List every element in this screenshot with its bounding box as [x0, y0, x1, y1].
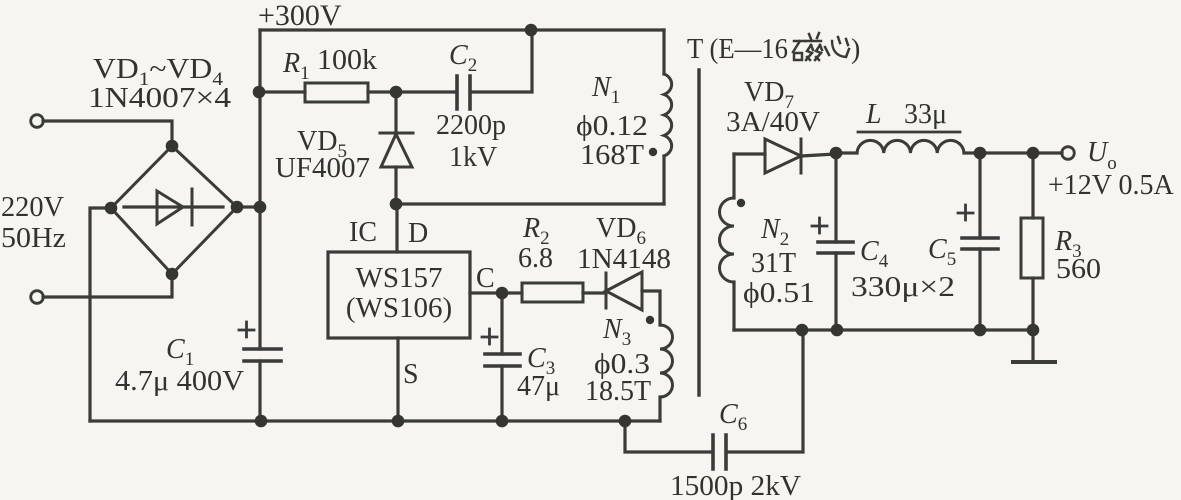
svg-text:330μ×2: 330μ×2 [851, 272, 955, 303]
wire bottom left rail [90, 419, 660, 422]
svg-text:31T: 31T [751, 248, 796, 279]
node C5 bottom [974, 324, 987, 337]
svg-text:IC: IC [349, 217, 377, 248]
svg-text:R1: R1 [282, 48, 310, 84]
capacitor C6 [625, 330, 803, 500]
svg-text:50Hz: 50Hz [1, 223, 66, 254]
wire bottom right rail [734, 328, 1033, 331]
node T label [687, 33, 860, 65]
transformer winding N2 [720, 154, 816, 330]
resistor R1 [260, 45, 396, 102]
node C2 top [525, 24, 538, 37]
wire left rail lower [258, 361, 261, 421]
svg-text:T (E—16: T (E—16 [687, 34, 788, 65]
svg-text:+300V: +300V [258, 0, 342, 32]
svg-text:D: D [408, 218, 428, 249]
resistor R2 [518, 213, 606, 302]
capacitor C1 [115, 322, 281, 397]
inductor L [836, 99, 1062, 153]
node C3 bottom [496, 415, 509, 428]
svg-text:3A/40V: 3A/40V [726, 107, 820, 138]
svg-text:2200p: 2200p [436, 110, 506, 141]
wire left rail upper [258, 30, 261, 349]
node C6 right riser [796, 324, 809, 337]
svg-text:S: S [403, 359, 419, 390]
svg-text:1500p 2kV: 1500p 2kV [670, 471, 801, 500]
wire +300V top rail [260, 28, 664, 31]
wire bridge left to bottom rail [90, 208, 111, 421]
node rail-R1 [253, 86, 266, 99]
wire VD5 bottom to N1 bottom [396, 202, 664, 205]
svg-text:C4: C4 [860, 236, 889, 272]
svg-text:C6: C6 [719, 399, 747, 435]
wire C pin [470, 291, 522, 294]
node C6 junction [619, 415, 632, 428]
transformer core T [697, 70, 700, 395]
N3 phase dot [646, 316, 654, 324]
node input terminal top [31, 115, 44, 128]
svg-text:47μ: 47μ [517, 371, 560, 402]
wire D pin [395, 204, 398, 252]
node R3 top [1027, 147, 1040, 160]
diode VD5 [275, 92, 413, 204]
svg-text:Uo: Uo [1087, 137, 1117, 174]
N2 phase dot [737, 199, 745, 207]
N1 phase dot [649, 148, 657, 156]
node +300V label [258, 0, 342, 32]
node bridge rail [254, 201, 267, 214]
svg-text:WS157: WS157 [356, 262, 443, 294]
node input terminal bottom [31, 291, 44, 304]
node bridge bottom [166, 268, 179, 281]
node C4 bottom [831, 324, 844, 337]
bridge rectifier VD1-VD4 [88, 54, 260, 274]
svg-text:1N4148: 1N4148 [577, 244, 671, 275]
hanzi xin (heart) drawn [825, 37, 849, 57]
svg-text:+12V 0.5A: +12V 0.5A [1048, 170, 1175, 201]
svg-text:1kV: 1kV [449, 142, 497, 173]
svg-text:C1: C1 [166, 334, 194, 370]
svg-text:L: L [865, 99, 882, 130]
wire input bottom [43, 274, 172, 297]
svg-text:6.8: 6.8 [518, 243, 553, 274]
node S bottom [392, 415, 405, 428]
svg-text:N1: N1 [591, 72, 620, 108]
node VD7-L-C4 [830, 147, 843, 160]
node R3 bottom ground [1027, 324, 1040, 337]
capacitor C5 [928, 153, 998, 330]
node Uo label [1048, 137, 1175, 201]
svg-text:560: 560 [1056, 254, 1101, 285]
svg-text:33μ: 33μ [904, 99, 947, 130]
node 220V label [1, 192, 66, 254]
node bridge right [231, 201, 244, 214]
svg-text:): ) [851, 34, 860, 65]
svg-text:N2: N2 [760, 214, 789, 250]
svg-text:C5: C5 [928, 234, 956, 270]
svg-text:UF4007: UF4007 [275, 153, 370, 184]
svg-text:18.5T: 18.5T [585, 376, 651, 407]
node R1-VD5-C2 [390, 86, 403, 99]
capacitor C2 [396, 30, 532, 173]
node bridge top [166, 140, 179, 153]
transformer winding N3 [585, 314, 673, 421]
op IC U1 WS157 box [328, 217, 495, 390]
capacitor C3 [482, 293, 560, 421]
node VD5 bottom [390, 198, 403, 211]
ground [1013, 330, 1055, 362]
capacitor C4 [812, 153, 955, 330]
svg-text:220V: 220V [1, 192, 64, 223]
svg-text:168T: 168T [580, 140, 644, 171]
diode VD6 [577, 213, 671, 325]
svg-text:4.7μ 400V: 4.7μ 400V [115, 366, 244, 397]
node output terminal [1062, 147, 1075, 160]
svg-text:C2: C2 [449, 40, 477, 76]
node C pin junction [496, 287, 509, 300]
node C1 bottom [255, 415, 268, 428]
wire S pin [396, 338, 399, 421]
wire input top [43, 121, 172, 146]
svg-text:C: C [476, 263, 495, 294]
diode VD7 [726, 77, 836, 173]
hanzi ci (magnetic) drawn [793, 33, 822, 60]
svg-text:(WS106): (WS106) [346, 292, 452, 324]
svg-text:100k: 100k [317, 45, 377, 76]
node L-C5 [974, 147, 987, 160]
transformer winding N1 [576, 30, 672, 204]
node bridge left [105, 202, 118, 215]
svg-text:1N4007×4: 1N4007×4 [88, 83, 231, 114]
svg-text:ϕ0.51: ϕ0.51 [743, 278, 815, 309]
resistor R3 [1021, 153, 1101, 330]
svg-text:ϕ0.12: ϕ0.12 [576, 111, 648, 142]
svg-text:N3: N3 [602, 314, 631, 350]
